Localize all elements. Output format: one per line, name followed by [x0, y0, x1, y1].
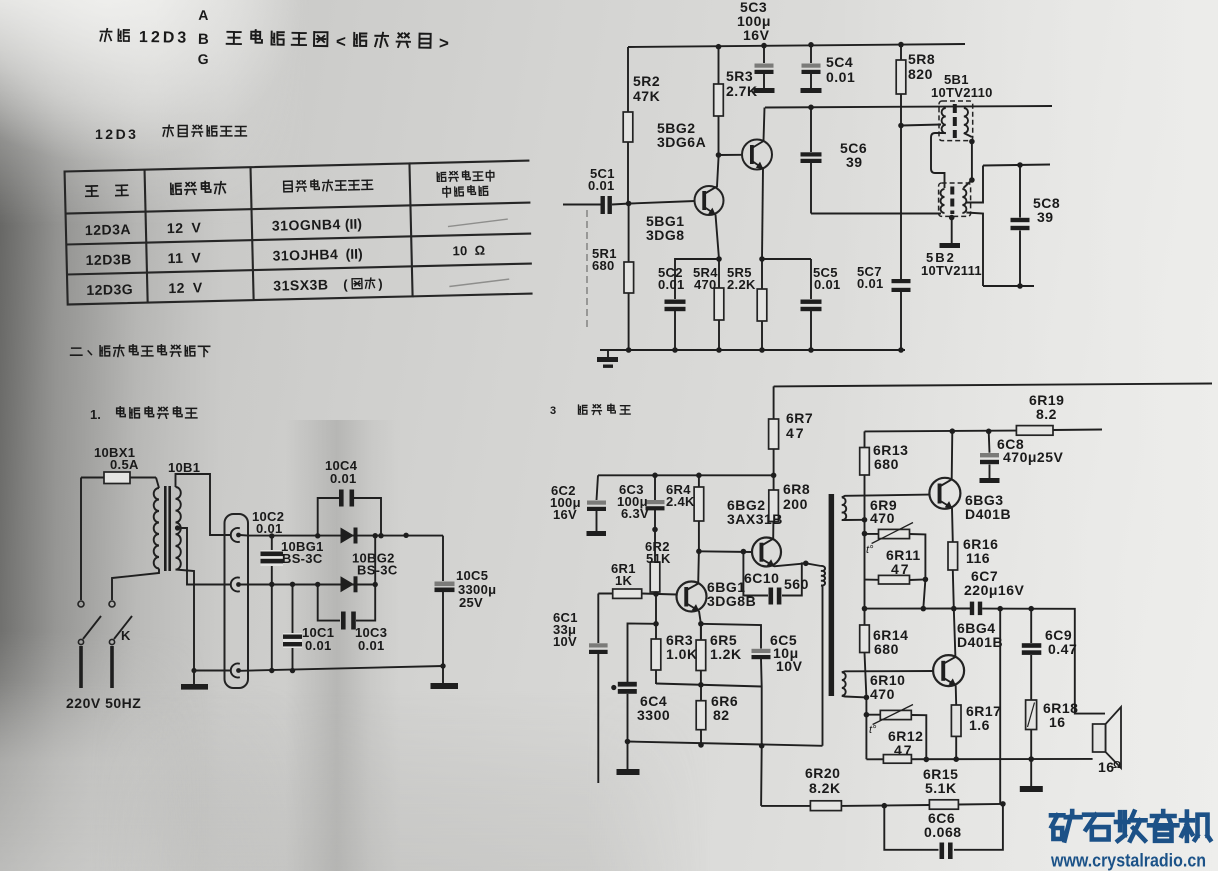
- wire primary top: [156, 478, 159, 489]
- svg-text:A: A: [198, 7, 208, 23]
- svg-text:6R7: 6R7: [786, 410, 813, 426]
- svg-text:1K: 1K: [615, 573, 633, 588]
- resistor 6R7 47: [773, 386, 775, 475]
- table cell dash row1: [448, 219, 508, 226]
- svg-text:470: 470: [870, 686, 895, 702]
- heading 二、部分电路更改如下: [71, 348, 82, 355]
- node base 5BG1: [626, 201, 632, 207]
- resistor 5R8 820: [900, 45, 902, 280]
- wire base bias left jog: [628, 594, 657, 682]
- svg-text:(II): (II): [345, 246, 362, 262]
- wire bottom tap to connector: [194, 670, 231, 672]
- table header 型号: [86, 186, 98, 196]
- wire dc mid line: [240, 584, 375, 586]
- wire top supply rail: [628, 44, 965, 47]
- wire y608 right: [982, 609, 1105, 714]
- wire base 5BG1: [630, 201, 695, 204]
- transformer 5B2 core: [950, 187, 954, 215]
- transformer secondary lower winding: [842, 672, 846, 695]
- svg-text:8.2: 8.2: [1036, 406, 1057, 422]
- svg-text:680: 680: [592, 258, 615, 273]
- wire 6C5 column down: [760, 687, 763, 806]
- node 6C3 6R2: [652, 527, 658, 533]
- svg-text:www.crystalradio.cn: www.crystalradio.cn: [1050, 851, 1206, 871]
- transformer core: [829, 494, 835, 696]
- svg-text:(: (: [343, 277, 348, 292]
- svg-text:0.01: 0.01: [305, 638, 332, 653]
- wire secondary tap bottom: [176, 570, 195, 685]
- svg-text:0.47: 0.47: [1048, 641, 1077, 657]
- table row line header: [66, 203, 531, 214]
- wire upper winding bottom: [842, 519, 865, 521]
- wire rail y685: [656, 684, 762, 687]
- wire rail y475: [598, 474, 774, 476]
- resistor 5R3 2.7K: [718, 47, 720, 159]
- wire base 6BG3: [842, 495, 930, 498]
- svg-text:2.2K: 2.2K: [727, 277, 756, 292]
- transformer 5B2 left winding: [941, 189, 945, 213]
- svg-text:0.068: 0.068: [924, 824, 962, 840]
- svg-text:3: 3: [550, 405, 556, 417]
- svg-text:10C5: 10C5: [456, 568, 488, 583]
- svg-text:200: 200: [783, 496, 808, 512]
- transformer secondary upper winding: [842, 497, 846, 520]
- svg-text:47K: 47K: [633, 88, 660, 104]
- diode 10BG2 BS-3C: [341, 576, 355, 592]
- svg-text:560: 560: [784, 576, 809, 592]
- svg-text:470: 470: [694, 277, 717, 292]
- transformer 5B2 10TV2111 box: [939, 183, 971, 216]
- capacitor 6C2 100u 16V: [597, 475, 599, 531]
- svg-text:12D3B: 12D3B: [85, 251, 131, 268]
- svg-text:3300: 3300: [637, 707, 670, 723]
- svg-text:6R8: 6R8: [783, 481, 810, 497]
- table header 显象管参考型号: [284, 181, 293, 192]
- capacitor 6C5 10u 10V: [701, 624, 762, 687]
- capacitor 10C1 0.01: [292, 584, 294, 671]
- svg-text:82: 82: [713, 707, 730, 723]
- capacitor 10C2 0.01: [271, 536, 273, 671]
- resistor 6R16 116: [952, 508, 954, 609]
- transistor 6BG2 3AX31B: [752, 538, 781, 567]
- capacitor 5C3 100u 16V: [761, 43, 767, 49]
- svg-text:470: 470: [870, 510, 895, 526]
- capacitor 6C3 100u 6.3V: [652, 473, 658, 479]
- resistor 5R4 470: [718, 259, 720, 350]
- capacitor 6C9 0.47: [1030, 609, 1032, 700]
- resistor 6R18 16: [1026, 700, 1037, 730]
- wire y165 to 5C8: [983, 165, 1050, 166]
- wire mains top: [81, 477, 156, 479]
- svg-text:t°: t°: [869, 724, 877, 736]
- svg-text:12V: 12V: [168, 279, 203, 296]
- table column line 1: [145, 170, 148, 303]
- node base 6BG1: [653, 591, 659, 597]
- svg-text:G: G: [198, 51, 209, 67]
- svg-text:31OJHB4: 31OJHB4: [272, 246, 338, 264]
- resistor 6R5 1.2K: [700, 624, 702, 685]
- wire input dashed drop: [586, 210, 588, 330]
- svg-text:12V: 12V: [167, 219, 202, 236]
- wire ground rail section5: [600, 349, 905, 351]
- transistor 5BG1 3DG8: [695, 186, 724, 215]
- table row line 2: [67, 264, 532, 275]
- node secondary mid tap: [175, 525, 180, 530]
- transistor 6BG4 D401B: [933, 655, 964, 686]
- svg-text:0.01: 0.01: [814, 277, 841, 292]
- svg-text:BS-3C: BS-3C: [357, 563, 398, 578]
- capacitor 5C1 0.01: [601, 196, 605, 214]
- svg-text:0.01: 0.01: [658, 277, 685, 292]
- node emitter 5BG1: [716, 256, 722, 262]
- capacitor 6C7 220u 6V: [970, 602, 974, 616]
- table top edge col4: [409, 161, 529, 164]
- resistor 6R1 1K: [598, 594, 677, 595]
- transformer 5B1 core: [953, 104, 957, 138]
- svg-text:12D3G: 12D3G: [86, 281, 133, 298]
- svg-text:1.2K: 1.2K: [710, 646, 742, 662]
- capacitor 5C4 0.01: [808, 42, 814, 48]
- svg-text:2.4K: 2.4K: [666, 494, 695, 509]
- wire emitter junction to 5C2: [675, 259, 719, 299]
- fuse 10BX1 0.5A: [104, 472, 130, 484]
- capacitor 5C8 39: [1017, 162, 1023, 168]
- svg-text:(II): (II): [345, 216, 362, 232]
- svg-text:51K: 51K: [646, 551, 671, 566]
- svg-text:31OGNB4: 31OGNB4: [272, 216, 341, 234]
- svg-text:220V 50HZ: 220V 50HZ: [66, 695, 141, 711]
- wire rail y759: [866, 758, 1092, 760]
- svg-text:D401B: D401B: [957, 634, 1003, 650]
- capacitor 6C4 3300: [618, 682, 637, 687]
- connector pin top: [231, 528, 240, 542]
- table column line 2: [251, 167, 254, 300]
- svg-text:2.7K: 2.7K: [726, 83, 758, 99]
- svg-text:K: K: [121, 628, 131, 643]
- svg-text:12D3: 12D3: [95, 126, 138, 142]
- node 6C10 tap: [741, 549, 747, 555]
- svg-text:<: <: [336, 32, 346, 51]
- capacitor 5C6 39: [808, 105, 814, 111]
- svg-text:47: 47: [891, 561, 911, 577]
- wire dc bottom rail: [240, 666, 443, 671]
- wire collector rail y107: [765, 106, 1052, 108]
- svg-text:0.01: 0.01: [857, 276, 884, 291]
- table outer border: [65, 163, 413, 304]
- node collector 6BG1 base 6BG2: [696, 549, 702, 555]
- svg-text:12D3A: 12D3A: [85, 221, 131, 238]
- transformer 5B1 right winding: [964, 108, 968, 133]
- wire 5B2 lower tap: [966, 213, 983, 287]
- svg-text:0.01: 0.01: [256, 521, 283, 536]
- capacitor 10C3 0.01: [318, 584, 376, 620]
- capacitor 10C5 3300u 25V: [442, 536, 444, 666]
- svg-text:12D3: 12D3: [139, 29, 190, 47]
- svg-text:10V: 10V: [776, 658, 803, 674]
- svg-text:1.: 1.: [90, 407, 101, 422]
- svg-text:39: 39: [1037, 209, 1054, 225]
- wire 5B1 left bottom loop to 5B2: [931, 133, 946, 188]
- svg-text:0.5A: 0.5A: [110, 457, 139, 472]
- resistor 6R13 680: [864, 431, 866, 608]
- resistor 5R5 2.2K: [761, 259, 763, 350]
- table header 灯丝电路中串联电阻: [437, 172, 446, 181]
- svg-text:11V: 11V: [167, 249, 201, 266]
- capacitor 5C5 0.01: [810, 259, 812, 350]
- transformer 10B1 core: [164, 486, 167, 571]
- wire feedback column: [999, 609, 1001, 804]
- connector pin mid: [231, 578, 240, 592]
- switch K: [78, 601, 84, 607]
- thermistor 6R12 47: [866, 697, 926, 759]
- svg-text:>: >: [439, 34, 449, 53]
- node emitter 6BG1: [698, 621, 704, 627]
- svg-text:6C10: 6C10: [744, 570, 779, 586]
- svg-text:3DG6A: 3DG6A: [657, 134, 706, 150]
- title 飞跃12D3: [100, 29, 111, 42]
- wire diode outputs join: [374, 536, 376, 585]
- wire between transformer dots: [971, 142, 973, 181]
- svg-text:0.01: 0.01: [358, 638, 385, 653]
- resistor 6R20 8.2K: [810, 801, 841, 811]
- ground under transformer: [181, 684, 208, 690]
- ground under 10C5: [442, 666, 444, 683]
- capacitor 6C10 560 loop: [743, 552, 805, 596]
- svg-text:10Ω: 10Ω: [452, 243, 485, 259]
- wire mains left vertical: [80, 478, 82, 601]
- wire mains lead right: [110, 646, 114, 688]
- table header 灯丝电压: [171, 183, 181, 194]
- wire rail y431: [865, 430, 1103, 432]
- connector pin bottom: [231, 664, 240, 678]
- speaker: [1093, 724, 1106, 752]
- transistor 6BG3 D401B: [929, 478, 960, 509]
- node dc top: [403, 533, 408, 538]
- svg-text:16: 16: [1049, 714, 1066, 730]
- svg-text:0.01: 0.01: [826, 69, 855, 85]
- table row line 1: [66, 234, 531, 245]
- transformer 5B2 right winding: [962, 189, 966, 213]
- wire transformer primary bottom: [821, 586, 823, 746]
- wire base 5BG2: [719, 154, 743, 156]
- table bottom edge col4: [413, 294, 533, 297]
- capacitor 5C2 0.01: [665, 300, 686, 304]
- resistor 6R4 2.4K: [697, 475, 700, 583]
- svg-text:10TV2110: 10TV2110: [931, 85, 993, 100]
- ground under 6C4: [627, 742, 629, 770]
- svg-text:10V: 10V: [553, 634, 577, 649]
- wire 5B1 right bottom: [964, 133, 972, 137]
- node winding 6R13: [862, 531, 868, 537]
- svg-text:47: 47: [786, 425, 806, 441]
- resistor 6R6 82: [700, 685, 702, 745]
- wire emitter 6BG2 to transformer: [774, 563, 821, 566]
- svg-text:D401B: D401B: [965, 506, 1011, 522]
- wire primary bottom to switch: [112, 569, 159, 601]
- svg-text:5C4: 5C4: [826, 54, 853, 70]
- wire lower winding bottom: [842, 696, 867, 698]
- wire 5B2 upper tap: [966, 166, 983, 203]
- wire dc top line: [240, 534, 443, 537]
- resistor 6R17 1.6: [955, 685, 958, 759]
- wire input left: [563, 204, 601, 206]
- wire base 6BG2: [699, 550, 752, 553]
- svg-text:0.01: 0.01: [588, 178, 615, 193]
- svg-text:16V: 16V: [553, 507, 577, 522]
- svg-text:39: 39: [846, 154, 863, 170]
- capacitor 5C7 0.01: [892, 279, 911, 283]
- wire secondary tap mid: [178, 528, 232, 585]
- svg-text:6.3V: 6.3V: [621, 506, 649, 521]
- transformer primary winding: [821, 566, 825, 586]
- wire emitter row to 5C5: [762, 258, 811, 260]
- wire output line y805: [761, 804, 1003, 806]
- resistor 6R8 200: [773, 475, 775, 490]
- ground y759 rail: [1030, 759, 1032, 786]
- wire emitter 6BG1 down: [699, 611, 701, 640]
- capacitor 10C4 0.01: [318, 498, 381, 536]
- resistor 6R15 5.1K body: [929, 800, 958, 809]
- capacitor 6C6 0.068 loop: [884, 804, 1003, 850]
- svg-text:1.0K: 1.0K: [666, 646, 698, 662]
- node 5R8 to 5B1: [898, 123, 904, 129]
- transformer 10B1 secondary winding: [176, 487, 181, 570]
- node bottom tap: [191, 668, 196, 673]
- wire node line y608: [865, 608, 971, 610]
- transformer 10B1 primary winding: [154, 488, 159, 569]
- svg-text:1.6: 1.6: [969, 717, 990, 733]
- transistor 5BG2 3DG6A: [742, 140, 772, 170]
- svg-text:3DG8: 3DG8: [646, 227, 685, 243]
- svg-text:680: 680: [874, 456, 899, 472]
- connector block: [225, 514, 249, 688]
- svg-text:0.01: 0.01: [330, 471, 357, 486]
- svg-text:10TV2111: 10TV2111: [921, 263, 982, 278]
- thermistor 6R11 47: [865, 534, 926, 609]
- wire 5R8 to 5B1 tap: [901, 125, 941, 126]
- svg-text:BS-3C: BS-3C: [282, 551, 323, 566]
- capacitor 6C1 33u 10V: [597, 594, 599, 784]
- transformer 5B1 left winding: [942, 108, 946, 133]
- wire secondary tap top: [176, 474, 232, 535]
- svg-text:220μ16V: 220μ16V: [964, 582, 1024, 598]
- resistor 5R2 47K: [627, 47, 629, 204]
- svg-text:8.2K: 8.2K: [809, 780, 841, 796]
- svg-text:5R3: 5R3: [726, 68, 753, 84]
- resistor 6R2 51K: [654, 530, 656, 595]
- svg-text:5R8: 5R8: [908, 51, 935, 67]
- svg-text:6R20: 6R20: [805, 765, 840, 781]
- wire rail y213: [811, 213, 941, 215]
- wire rail y743: [628, 742, 823, 746]
- wire 5B2 center tap ground: [949, 215, 955, 221]
- svg-text:5.1K: 5.1K: [925, 780, 957, 796]
- svg-text:116: 116: [966, 550, 990, 566]
- svg-text:5R2: 5R2: [633, 73, 660, 89]
- resistor 6R14 680: [865, 609, 867, 698]
- svg-text:t°: t°: [866, 544, 874, 556]
- wire mains lead left: [79, 646, 83, 688]
- capacitor 6C8 470u 25V: [988, 431, 991, 478]
- transistor 6BG1 3DG8B: [677, 582, 707, 612]
- svg-text:470μ25V: 470μ25V: [1003, 449, 1063, 465]
- svg-text:25V: 25V: [459, 595, 483, 610]
- table cell dash row3: [449, 279, 509, 286]
- svg-text:Ω: Ω: [1113, 760, 1121, 771]
- svg-text:680: 680: [874, 641, 899, 657]
- svg-text:3AX31B: 3AX31B: [727, 511, 783, 527]
- wire long supply line top: [774, 384, 1212, 387]
- transformer 5B1 10TV2110 box: [939, 101, 973, 141]
- diode 10BG1 BS-3C: [341, 528, 355, 544]
- svg-text:31SX3B: 31SX3B: [273, 276, 329, 293]
- wire y286 bottom: [983, 285, 1034, 287]
- svg-text:): ): [378, 276, 383, 291]
- resistor 6R19 8.2: [1016, 426, 1053, 436]
- svg-text:10B1: 10B1: [168, 460, 200, 475]
- watermark 矿石收音机: [1051, 811, 1081, 841]
- resistor 6R3 1.0K: [655, 624, 657, 684]
- svg-text:B: B: [198, 31, 209, 48]
- ground symbol section5: [607, 350, 609, 357]
- resistor 5R1 680: [628, 204, 630, 351]
- wire base 6BG4: [842, 671, 933, 672]
- svg-text:16V: 16V: [743, 27, 770, 43]
- svg-text:820: 820: [908, 66, 933, 82]
- title 型电原理图: [227, 32, 241, 44]
